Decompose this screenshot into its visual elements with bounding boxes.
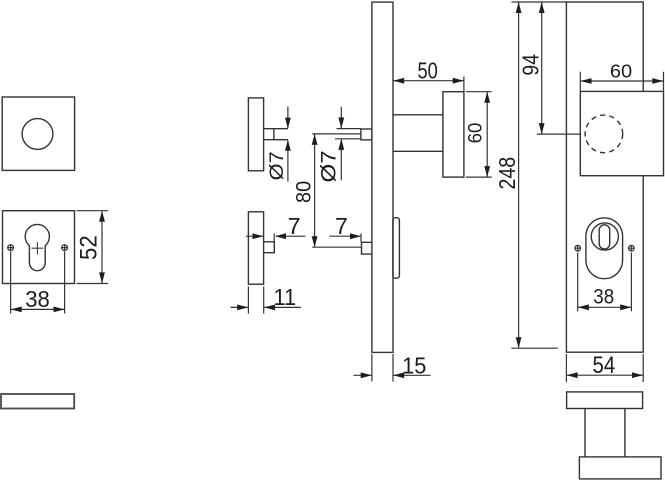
knob neck front view bottom: [585, 409, 625, 457]
dimension 38 arrow left: [11, 307, 22, 313]
dimension 50 line: [393, 80, 463, 82]
svg-text:248: 248: [494, 157, 520, 190]
rosette profile bar bottom view: [1, 394, 74, 409]
dimension 94 line: [541, 2, 543, 133]
dimension 60 side line: [486, 92, 488, 177]
dimension 248 bottom extension line: [511, 347, 558, 349]
dimension diameter 7 upper-left arrow lines: [287, 107, 289, 129]
security backplate front view: [566, 2, 643, 352]
svg-text:38: 38: [593, 285, 614, 308]
screw left on cylinder rosette: [8, 245, 14, 251]
svg-text:60: 60: [465, 123, 486, 144]
dimension 54 extension lines: [566, 354, 643, 382]
dimension 52 line: [101, 212, 103, 284]
dimension 15 extension lines: [372, 354, 393, 382]
rosette bore circle: [22, 119, 53, 150]
dimension 11 line right part: [264, 306, 301, 308]
svg-text:50: 50: [417, 57, 437, 83]
dimension 38 arrow right: [54, 307, 65, 313]
svg-text:7: 7: [335, 213, 348, 239]
dimension 11 line left part: [231, 306, 249, 308]
dimension 248 line: [518, 2, 520, 347]
dimension 60 rose line: [581, 80, 663, 82]
screw right on cylinder rosette: [62, 245, 68, 251]
svg-text:52: 52: [77, 235, 103, 260]
dimension 52 arrow bottom: [99, 272, 105, 283]
dimension 38 backplate extension lines: [578, 253, 632, 312]
security rosette oval: [586, 218, 623, 279]
dimension 50 extension line: [463, 77, 465, 92]
cylinder cover circle: [591, 223, 618, 250]
screw left on backplate: [575, 245, 581, 251]
svg-text:11: 11: [274, 284, 297, 310]
spindle stub on backplate upper: [361, 129, 372, 140]
cylinder cover side view: [393, 218, 400, 279]
svg-text:54: 54: [593, 352, 616, 379]
euro profile cylinder cutout: [25, 224, 49, 270]
dimension 60 rose extension lines: [580, 72, 663, 91]
dimension 38 backplate line: [578, 306, 631, 308]
dimension 7 right line: [329, 235, 360, 237]
spindle stub upper with extension edges: [264, 129, 288, 140]
knob head front view bottom: [579, 457, 661, 479]
dimension 94 extension line: [537, 133, 581, 135]
cylinder rosette front view: [3, 211, 75, 284]
svg-text:80: 80: [290, 181, 315, 203]
dimension 52 extension lines: [77, 211, 109, 284]
knob neck side view: [393, 115, 443, 152]
spindle stub upper extension edges: [335, 129, 361, 139]
knob head side view: [443, 92, 464, 177]
dimension 7 left extension line: [273, 234, 275, 242]
svg-text:Ø7: Ø7: [266, 151, 288, 180]
svg-text:Ø7: Ø7: [318, 150, 341, 182]
svg-text:60: 60: [610, 61, 632, 82]
knob rose front view bottom: [567, 392, 643, 409]
dimension 7 right extension line: [360, 234, 362, 243]
screw right on backplate: [629, 245, 635, 251]
dimension 54 line: [567, 374, 643, 376]
spindle stub lower: [264, 242, 275, 253]
svg-text:7: 7: [288, 213, 301, 239]
cylinder center cross: [32, 242, 44, 254]
dimension 52 arrow top: [99, 211, 105, 222]
dimension 15 line: [354, 374, 372, 376]
keyway slot: [599, 225, 610, 249]
rosette side view lower: [248, 212, 263, 284]
backplate side view: [372, 2, 393, 352]
svg-text:38: 38: [25, 286, 50, 312]
knob square rose front view: [580, 91, 663, 175]
svg-text:15: 15: [402, 353, 426, 379]
spindle stub on backplate lower: [362, 242, 372, 254]
dimension 248 top extension line: [512, 1, 567, 3]
dimension 80 line: [314, 134, 316, 247]
dimension diameter 7 right arrow lines: [340, 107, 342, 128]
dimension 11 extension lines: [248, 287, 263, 314]
dimension 60 side extension lines: [466, 92, 492, 177]
dimension 38 line: [11, 308, 64, 310]
dimension 38 extension lines: [11, 252, 65, 314]
rosette side view upper: [248, 98, 263, 171]
svg-text:94: 94: [517, 54, 543, 76]
dimension 7 left line: [246, 235, 263, 237]
dimension 80 extension lines: [312, 134, 361, 247]
knob dashed circle: [585, 115, 623, 153]
square rosette front view: [2, 97, 74, 170]
